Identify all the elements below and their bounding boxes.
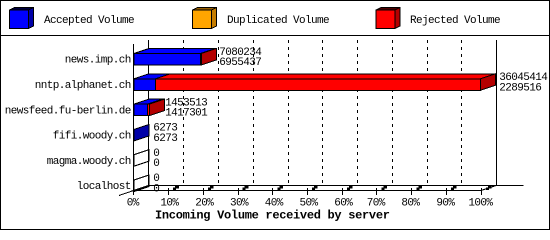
svg-text:6955437: 6955437 [219,57,261,69]
svg-text:Incoming Volume received by se: Incoming Volume received by server [155,209,390,223]
svg-text:90%: 90% [436,197,455,209]
svg-text:Duplicated Volume: Duplicated Volume [227,15,329,27]
svg-text:Accepted Volume: Accepted Volume [44,15,134,27]
svg-text:fifi.woody.ch: fifi.woody.ch [53,131,131,143]
svg-text:1417301: 1417301 [165,108,208,120]
svg-text:newsfeed.fu-berlin.de: newsfeed.fu-berlin.de [5,105,131,117]
svg-text:2289516: 2289516 [499,82,541,94]
svg-text:Rejected Volume: Rejected Volume [410,15,500,27]
svg-text:news.imp.ch: news.imp.ch [65,55,131,67]
svg-text:0: 0 [153,183,159,195]
svg-text:0: 0 [153,158,159,170]
svg-text:6273: 6273 [153,133,177,145]
svg-text:localhost: localhost [77,181,131,193]
svg-text:nntp.alphanet.ch: nntp.alphanet.ch [35,80,131,92]
svg-text:80%: 80% [401,197,420,209]
svg-text:magma.woody.ch: magma.woody.ch [47,156,131,168]
svg-text:100%: 100% [468,197,493,209]
svg-text:0%: 0% [127,197,140,209]
